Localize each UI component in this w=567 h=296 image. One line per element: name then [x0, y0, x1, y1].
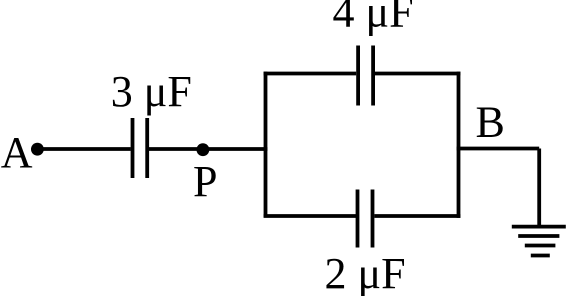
svg-text:B: B [476, 97, 505, 146]
capacitor C1 3 uF [133, 118, 148, 178]
capacitor C3 2 uF [358, 190, 373, 248]
wire top branch right [375, 72, 460, 76]
wire bottom branch left [264, 214, 357, 218]
wire top branch left [264, 72, 357, 76]
svg-text:3 μF: 3 μF [111, 67, 192, 116]
wire ground vertical [537, 149, 541, 227]
svg-text:P: P [193, 157, 217, 206]
wire bottom branch right [374, 214, 460, 218]
node P [197, 143, 210, 156]
node A [31, 143, 44, 156]
wire left branch vertical [264, 72, 268, 218]
wire right branch vertical [457, 72, 461, 218]
wire C1 to node P to junction [149, 147, 268, 151]
wire B to ground horizontal [457, 147, 540, 151]
svg-text:2 μF: 2 μF [325, 249, 406, 296]
wire A to C1 [37, 147, 130, 151]
ground [512, 227, 566, 256]
svg-text:A: A [1, 128, 33, 177]
capacitor C2 4 uF [358, 46, 373, 106]
svg-text:4 μF: 4 μF [333, 0, 414, 37]
